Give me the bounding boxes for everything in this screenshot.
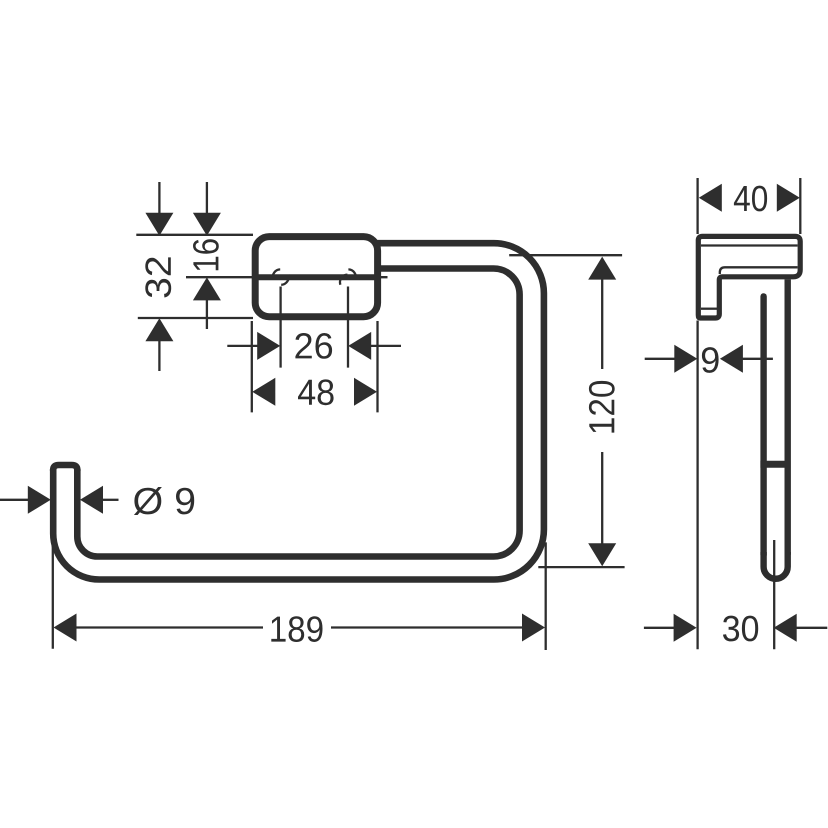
- dim 30: label: [723, 616, 758, 642]
- side view: bar right edge: [785, 279, 791, 554]
- dim 120: lower line segment: [601, 452, 603, 545]
- dim 48: right arrowhead: [354, 378, 377, 406]
- dim 26: left arrowhead: [257, 332, 280, 360]
- dim 30: left arrowhead: [674, 614, 697, 642]
- screw hole right arcs: [340, 269, 356, 284]
- dim 189: left arrowhead: [54, 614, 77, 642]
- front view: plate mid line thin stubs: [186, 276, 388, 278]
- dim 9 side: left arrowhead: [674, 345, 697, 373]
- side view: wall extension line: [696, 178, 698, 649]
- dim 16: bottom arrowhead: [193, 277, 221, 300]
- dim 32: bottom arrowhead: [145, 318, 173, 341]
- dim 40: label: [734, 186, 767, 212]
- dim 189: left line segment: [75, 626, 263, 628]
- dim 120: label: [589, 381, 615, 433]
- dim 48: left arrowhead: [252, 378, 275, 406]
- dim 189: label: [271, 616, 322, 642]
- front view: plate mid thick line: [252, 274, 379, 280]
- dim 120: bottom arrowhead: [588, 543, 616, 566]
- side view: bar bottom cap: [764, 552, 788, 579]
- dim diameter 9: label: [134, 487, 194, 515]
- dim 16: top arrowhead: [193, 213, 221, 236]
- dim 189: right arrowhead: [522, 614, 545, 642]
- dim 26: left tail: [227, 345, 258, 347]
- dim 40: right arrowhead: [777, 184, 800, 212]
- dim 189: extension line right: [545, 542, 547, 650]
- side view: bar joint tick: [760, 461, 790, 468]
- dim 120: extension line top: [509, 254, 622, 256]
- dim 120: extension line bottom: [538, 566, 624, 568]
- dim 32: top arrow tail: [158, 182, 160, 214]
- side view: arm inner top line: [701, 244, 798, 246]
- front view: hook end cap: [53, 465, 77, 471]
- screw hole left arcs: [273, 269, 289, 284]
- side view: arm inner bottom line with corner arc: [720, 267, 798, 274]
- dim 189: right line segment: [331, 626, 523, 628]
- dim 9 side: label: [702, 347, 719, 373]
- dim 40: extension line right: [799, 178, 801, 234]
- extension line top (plate top, y=235.6): [136, 234, 253, 236]
- side view: bar center line / dim30 right extension: [773, 540, 775, 649]
- dim diameter 9: right tail: [103, 499, 119, 501]
- dim 30: right tail: [796, 627, 827, 629]
- dim 16: top arrow tail: [206, 182, 208, 214]
- dim 9 side: right tail: [742, 358, 773, 360]
- dim 120: top arrowhead: [588, 257, 616, 280]
- dim 48: extension line left: [251, 321, 253, 412]
- dim 26: extension line left: [279, 287, 281, 368]
- front view: towel ring inner outline: [77, 269, 519, 557]
- dim diameter 9: right arrowhead: [80, 486, 103, 514]
- dim 16: bottom arrow tail: [206, 299, 208, 329]
- dim 30: right arrowhead: [774, 614, 797, 642]
- front view: wall plate rounded rect: [255, 237, 377, 317]
- dim 26: right tail: [371, 345, 402, 347]
- dim 32: label: [145, 257, 171, 297]
- side view: bar left edge: [760, 296, 766, 554]
- side view: plate bottom inner line: [701, 308, 717, 310]
- dim diameter 9: left tail: [0, 499, 28, 501]
- dim 120: upper line segment: [601, 279, 603, 370]
- dim 48: label: [298, 379, 334, 405]
- dim 16: label: [193, 239, 219, 270]
- extension line plate bottom: [138, 317, 253, 319]
- dim 32: top arrowhead: [145, 213, 173, 236]
- front view: towel ring outer outline: [53, 243, 544, 579]
- dim 189: extension line left: [52, 544, 54, 649]
- dim 26: right arrowhead: [348, 332, 371, 360]
- dim 9 side: left tail: [645, 358, 675, 360]
- dim 26: extension line right: [347, 287, 349, 368]
- dim 32: bottom arrow tail: [158, 340, 160, 371]
- dim 30: left tail: [644, 627, 674, 629]
- dim 40: left arrowhead: [699, 184, 722, 212]
- dim diameter 9: left arrowhead: [28, 486, 51, 514]
- dim 26: label: [295, 333, 332, 359]
- side view: plate and arm outline: [698, 236, 800, 318]
- dim 9 side: right arrowhead: [720, 345, 743, 373]
- dim 48: extension line right: [376, 321, 378, 412]
